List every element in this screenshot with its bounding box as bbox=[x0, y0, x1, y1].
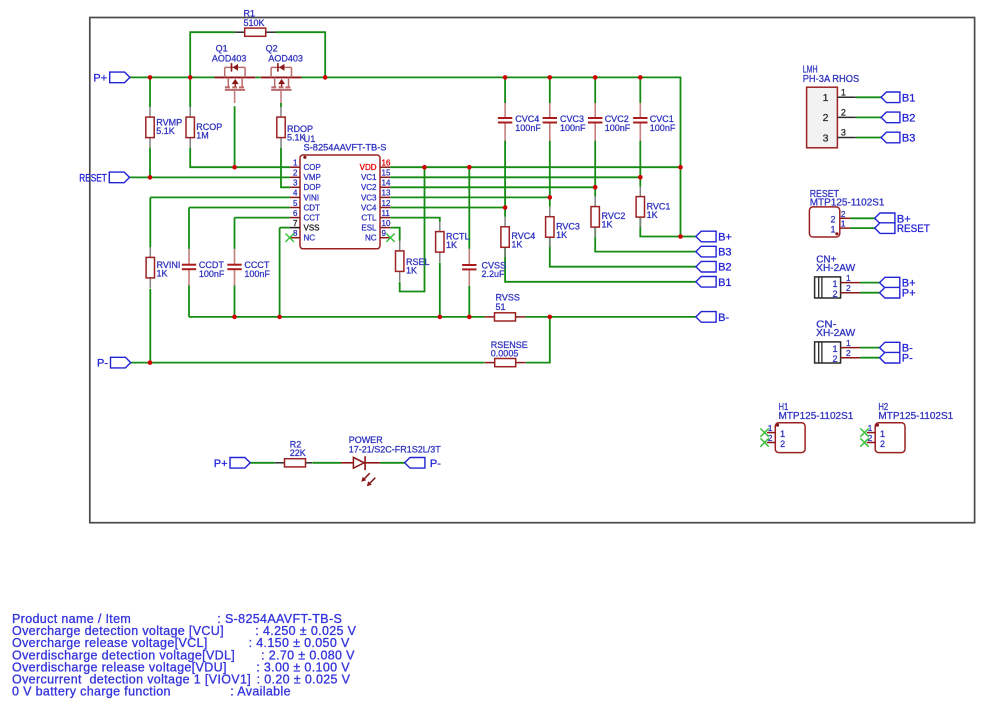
global label B- CN- bbox=[880, 342, 914, 354]
svg-text:2: 2 bbox=[823, 112, 829, 124]
wire R1 loop right bbox=[276, 32, 326, 77]
pin 16 VDD bbox=[360, 159, 391, 173]
svg-text:1: 1 bbox=[293, 159, 298, 168]
wire P+ rail right and drop to B+ row bbox=[301, 77, 680, 236]
junction P+/CVC3 bbox=[548, 75, 553, 80]
junction VC3/RVC3 bbox=[548, 195, 553, 200]
pin 7 VSS bbox=[290, 219, 320, 233]
junction VC1/RVC1 bbox=[638, 175, 643, 180]
svg-text:1K: 1K bbox=[446, 240, 457, 250]
svg-text:P+: P+ bbox=[93, 72, 107, 84]
svg-text:RESET: RESET bbox=[897, 223, 930, 235]
wire VSS rail left of RVSS bbox=[189, 316, 485, 318]
wire RESET to VMP pin bbox=[130, 176, 290, 178]
global label RESET input bbox=[79, 172, 129, 184]
svg-text:2: 2 bbox=[868, 433, 873, 443]
junction P+/R1 right bbox=[323, 75, 328, 80]
svg-text:VINI: VINI bbox=[304, 193, 320, 202]
svg-text:1: 1 bbox=[841, 219, 846, 229]
wire VC1 row bbox=[390, 176, 640, 178]
wire CCCT to VSS rail bbox=[234, 286, 236, 317]
svg-text:1: 1 bbox=[823, 92, 829, 104]
junction VDD/RSEL return bbox=[422, 165, 427, 170]
svg-text:MTP125-1102S1: MTP125-1102S1 bbox=[779, 411, 854, 422]
wire LMH pin1 to B1 bbox=[856, 96, 882, 98]
connector H1 MTP125-1102S1 bbox=[767, 402, 854, 453]
svg-text:13: 13 bbox=[382, 189, 391, 198]
svg-text:VC2: VC2 bbox=[361, 183, 377, 192]
svg-text:COP: COP bbox=[304, 163, 321, 172]
wire VC2 row bbox=[390, 186, 595, 188]
junction P+/CVC4 bbox=[503, 75, 508, 80]
wire CN+ pin2 to P+ bbox=[860, 292, 880, 294]
pin 3 DOP bbox=[290, 179, 321, 193]
wire CVSS to VSS rail bbox=[468, 286, 470, 317]
wire VC4 to RVC4 bbox=[504, 208, 506, 217]
svg-text:2: 2 bbox=[841, 108, 846, 118]
junction VDD/CVSS bbox=[467, 165, 472, 170]
wire VC2 to RVC2 bbox=[594, 187, 596, 196]
svg-text:100nF: 100nF bbox=[650, 123, 676, 133]
transistor Q2 bbox=[261, 44, 303, 103]
wire CCT drop to CCCT bbox=[234, 218, 236, 249]
wire LED to P- bbox=[380, 462, 405, 464]
wire CVC2 to VC2 row bbox=[594, 141, 596, 188]
svg-text:2: 2 bbox=[780, 439, 785, 449]
connector H2 MTP125-1102S1 bbox=[867, 402, 954, 453]
svg-text:AOD403: AOD403 bbox=[212, 54, 247, 64]
pin 5 CDT bbox=[290, 199, 320, 213]
capacitor CVC3 bbox=[543, 103, 586, 141]
svg-text:100nF: 100nF bbox=[515, 123, 541, 133]
svg-text:1K: 1K bbox=[647, 210, 658, 220]
svg-text:VC3: VC3 bbox=[361, 193, 377, 202]
wire CN- pin1 to B- bbox=[860, 347, 880, 349]
sheet border bbox=[90, 18, 975, 523]
svg-text:2: 2 bbox=[880, 439, 885, 449]
wire P+ rail left segment bbox=[130, 76, 215, 78]
global label B1 LMH bbox=[881, 92, 915, 104]
svg-text:P-: P- bbox=[902, 353, 913, 365]
wire RDOP to DOP pin bbox=[281, 148, 290, 188]
no-connect pin9 NC bbox=[386, 234, 394, 242]
pin 10 ESL bbox=[361, 219, 391, 233]
wire RCOP to COP row bbox=[190, 148, 290, 168]
pin 15 VC1 bbox=[361, 169, 391, 183]
svg-text:2: 2 bbox=[832, 354, 837, 364]
svg-text:510K: 510K bbox=[244, 18, 265, 28]
svg-text:RVSS: RVSS bbox=[496, 293, 520, 303]
wire P+ between Q1 Q2 bbox=[255, 76, 261, 78]
capacitor CVSS bbox=[462, 249, 506, 286]
wire VSS rail right of RVSS to B- bbox=[525, 316, 696, 318]
junction P+/CVC1 bbox=[638, 75, 643, 80]
svg-text:: Available: : Available bbox=[230, 685, 291, 699]
svg-text:1: 1 bbox=[868, 423, 873, 433]
wire P+ to CVC2 bbox=[594, 77, 596, 103]
wire P+ to RVMP bbox=[149, 77, 151, 107]
pin 2 VMP bbox=[290, 169, 321, 183]
svg-text:0.0005: 0.0005 bbox=[491, 349, 519, 359]
svg-text:0 V battery charge function: 0 V battery charge function bbox=[12, 685, 171, 699]
svg-text:B1: B1 bbox=[902, 92, 915, 104]
junction VSS rail/RSENSE bbox=[548, 315, 553, 320]
svg-text:16: 16 bbox=[382, 159, 391, 168]
junction P+/CVC2 bbox=[593, 75, 598, 80]
svg-text:2: 2 bbox=[846, 348, 851, 358]
wire RCTL to VSS rail bbox=[439, 263, 441, 317]
wire P+ to RCOP bbox=[189, 77, 191, 107]
svg-text:2: 2 bbox=[832, 289, 837, 299]
connector LMH PH-3A RHOS bbox=[803, 64, 860, 147]
svg-text:1: 1 bbox=[780, 429, 785, 439]
svg-text:CTL: CTL bbox=[361, 214, 377, 223]
wire CN- pin2 to P- bbox=[860, 357, 880, 359]
wire RVC3 to B2 row bbox=[550, 238, 696, 267]
wire VC4 row bbox=[390, 207, 505, 209]
connector CN- XH-2AW bbox=[815, 320, 861, 364]
specification text block bbox=[12, 612, 357, 699]
wire R2 to LED bbox=[312, 462, 341, 464]
global label RESET conn label bbox=[875, 223, 930, 235]
wire VINI drop to RVINI bbox=[149, 197, 151, 247]
wire CDT drop to CCDT bbox=[188, 208, 190, 249]
junction RESET/RVMP bbox=[148, 175, 153, 180]
svg-text:3: 3 bbox=[293, 179, 298, 188]
wire LMH pin3 to B3 bbox=[856, 137, 882, 139]
wire P+ to CVC1 bbox=[639, 77, 641, 103]
wire CDT row bbox=[189, 207, 290, 209]
svg-text:Q1: Q1 bbox=[216, 44, 228, 54]
wire R1 loop left bbox=[190, 32, 235, 77]
junction P- row/RVINI bbox=[148, 360, 153, 365]
capacitor CCDT bbox=[182, 249, 225, 286]
op-amp U1 S-8254AAVFT-TB-S bbox=[300, 134, 387, 249]
svg-text:VMP: VMP bbox=[304, 173, 321, 182]
svg-text:1K: 1K bbox=[406, 266, 417, 276]
wire CTL row to RCTL bbox=[390, 218, 440, 222]
svg-text:2: 2 bbox=[768, 433, 773, 443]
wire VC3 row bbox=[390, 196, 550, 198]
wire VDD row bbox=[390, 166, 680, 168]
pin 1 COP bbox=[290, 159, 321, 173]
global label B1 mid bbox=[696, 277, 732, 289]
wire VDD drop to CVSS bbox=[468, 167, 470, 249]
resistor RVMP bbox=[146, 107, 182, 148]
global label P+ CN+ bbox=[880, 287, 916, 299]
wire Q1 gate to COP row bbox=[234, 106, 236, 167]
resistor RVC3 bbox=[546, 207, 580, 248]
svg-text:14: 14 bbox=[382, 179, 391, 188]
wire P- row left of RSENSE bbox=[131, 362, 485, 364]
wire VC3 to RVC3 bbox=[549, 197, 551, 206]
pin 4 VINI bbox=[290, 189, 319, 203]
global label P- CN- bbox=[880, 352, 914, 364]
svg-text:DOP: DOP bbox=[304, 183, 321, 192]
junction VC4/RVC4 bbox=[503, 205, 508, 210]
junction VDD/P+ drop bbox=[678, 165, 683, 170]
svg-text:1: 1 bbox=[841, 88, 846, 98]
capacitor CVC2 bbox=[588, 103, 631, 141]
global label B+ RESET conn bbox=[875, 213, 911, 225]
resistor RVINI bbox=[146, 247, 180, 288]
capacitor CCCT bbox=[227, 249, 270, 286]
wire CVC1 to VC1 row bbox=[639, 141, 641, 178]
wire P+ to CVC4 bbox=[504, 77, 506, 103]
svg-text:PH-3A RHOS: PH-3A RHOS bbox=[803, 74, 860, 85]
pin 11 CTL bbox=[361, 209, 390, 223]
global label B3 mid bbox=[696, 246, 732, 258]
global label B+ mid bbox=[696, 231, 732, 243]
wire CN+ pin1 to B+ bbox=[860, 282, 880, 284]
wire CVC3 to VC3 row bbox=[549, 141, 551, 198]
svg-text:10: 10 bbox=[382, 219, 391, 228]
svg-text:4: 4 bbox=[293, 189, 298, 198]
svg-text:2.2uF: 2.2uF bbox=[482, 269, 506, 279]
pin 6 CCT bbox=[290, 209, 320, 223]
no-connect pin8 NC bbox=[286, 234, 294, 242]
wire VC1 to RVC1 bbox=[639, 177, 641, 186]
junction B+ row/P+ drop bbox=[678, 234, 683, 239]
svg-text:P-: P- bbox=[430, 458, 441, 470]
wire VSS pin stub wire bbox=[280, 227, 290, 229]
junction VSS rail/CVSS bbox=[467, 315, 472, 320]
svg-text:15: 15 bbox=[382, 169, 391, 178]
global label P- LED bbox=[405, 458, 442, 470]
wire ESL to RSEL bbox=[390, 228, 400, 241]
junction VSS rail/CCCT bbox=[232, 315, 237, 320]
pin 8 NC bbox=[290, 229, 315, 243]
resistor RVSS bbox=[485, 293, 526, 322]
svg-text:B+: B+ bbox=[718, 232, 732, 244]
global label B3 LMH bbox=[881, 132, 915, 144]
svg-text:2: 2 bbox=[841, 209, 846, 219]
wire CCDT to VSS rail bbox=[188, 286, 190, 317]
resistor RDOP bbox=[277, 107, 313, 148]
svg-text:P+: P+ bbox=[902, 288, 916, 300]
wire RSENSE to VSS rail bbox=[526, 317, 550, 363]
svg-text:9: 9 bbox=[382, 229, 387, 238]
svg-text:AOD403: AOD403 bbox=[268, 54, 303, 64]
svg-text:NC: NC bbox=[304, 234, 316, 243]
resistor R2 bbox=[275, 439, 313, 467]
svg-text:11: 11 bbox=[382, 209, 391, 218]
svg-text:1: 1 bbox=[846, 338, 851, 348]
resistor R1 bbox=[235, 9, 276, 37]
svg-text:1: 1 bbox=[832, 279, 837, 289]
wire RVC1 to B+ row bbox=[640, 217, 696, 236]
svg-text:VC1: VC1 bbox=[361, 173, 377, 182]
svg-text:7: 7 bbox=[293, 219, 298, 228]
resistor RVC2 bbox=[591, 197, 625, 238]
svg-text:5: 5 bbox=[293, 199, 298, 208]
pin 12 VC4 bbox=[361, 199, 391, 213]
svg-text:6: 6 bbox=[293, 209, 298, 218]
svg-text:CDT: CDT bbox=[304, 203, 321, 212]
svg-text:P+: P+ bbox=[214, 458, 228, 470]
svg-text:1K: 1K bbox=[556, 230, 567, 240]
svg-text:CCT: CCT bbox=[304, 214, 321, 223]
svg-text:B3: B3 bbox=[902, 133, 915, 145]
svg-text:5.1K: 5.1K bbox=[156, 126, 175, 136]
connector RESET MTP125-1102S1 bbox=[809, 189, 885, 237]
svg-text:Q2: Q2 bbox=[266, 44, 278, 54]
svg-text:51: 51 bbox=[496, 302, 506, 312]
svg-text:1K: 1K bbox=[511, 240, 522, 250]
resistor RVC4 bbox=[501, 217, 535, 257]
junction P+/RCOP/R1 bbox=[188, 75, 193, 80]
no-connect H1 pin1 NC bbox=[760, 428, 768, 436]
wire Q2 gate to RDOP bbox=[280, 103, 282, 107]
svg-text:17-21/S2C-FR1S2L/3T: 17-21/S2C-FR1S2L/3T bbox=[349, 445, 442, 455]
no-connect H2 pin1 NC bbox=[860, 428, 868, 436]
svg-text:2: 2 bbox=[293, 169, 298, 178]
wire RESET conn pin2 to B+ bbox=[850, 217, 874, 219]
global label B+ CN+ bbox=[880, 277, 916, 289]
svg-text:VDD: VDD bbox=[360, 163, 377, 172]
wire RVC2 to B3 row bbox=[595, 227, 696, 251]
global label B- mid bbox=[696, 312, 730, 324]
svg-text:2: 2 bbox=[830, 215, 835, 225]
wire RVMP to RESET row bbox=[149, 148, 151, 178]
no-connect H2 pin2 NC bbox=[860, 438, 868, 446]
junction VSS rail/RCTL bbox=[438, 315, 443, 320]
svg-text:2: 2 bbox=[846, 283, 851, 293]
resistor RVC1 bbox=[636, 187, 670, 228]
svg-text:22K: 22K bbox=[290, 448, 306, 458]
wire RVINI to P- row bbox=[149, 289, 151, 363]
resistor RCOP bbox=[186, 107, 222, 148]
wire RSEL return to VDD bbox=[400, 167, 425, 291]
junction P+/RVMP bbox=[148, 75, 153, 80]
svg-text:3: 3 bbox=[823, 132, 829, 144]
svg-text:S-8254AAVFT-TB-S: S-8254AAVFT-TB-S bbox=[304, 143, 387, 153]
svg-text:1M: 1M bbox=[196, 130, 209, 140]
wire RESET conn pin1 to RESET bbox=[850, 227, 874, 229]
global label B2 mid bbox=[696, 261, 732, 273]
svg-text:100nF: 100nF bbox=[605, 123, 631, 133]
pin 13 VC3 bbox=[361, 189, 391, 203]
junction VC2/RVC2 bbox=[593, 185, 598, 190]
svg-text:B3: B3 bbox=[718, 247, 731, 259]
global label P+ LED bbox=[214, 458, 250, 470]
no-connect H1 pin2 NC bbox=[760, 438, 768, 446]
svg-text:1K: 1K bbox=[602, 220, 613, 230]
global label P- input bbox=[97, 357, 131, 369]
svg-text:1: 1 bbox=[846, 273, 851, 283]
svg-text:1: 1 bbox=[768, 423, 773, 433]
global label B2 LMH bbox=[881, 112, 915, 124]
svg-text:VSS: VSS bbox=[304, 224, 320, 233]
connector CN+ XH-2AW bbox=[815, 255, 861, 299]
pin 9 NC bbox=[365, 229, 390, 243]
capacitor CVC4 bbox=[498, 103, 541, 141]
resistor RSENSE bbox=[485, 340, 528, 367]
wire CVC4 to VC4 row bbox=[504, 141, 506, 208]
junction VSS rail/VSS pin bbox=[277, 315, 282, 320]
svg-text:RESET: RESET bbox=[79, 172, 107, 184]
svg-text:NC: NC bbox=[365, 234, 377, 243]
pin 14 VC2 bbox=[361, 179, 391, 193]
svg-text:MTP125-1102S1: MTP125-1102S1 bbox=[878, 411, 953, 422]
svg-text:100nF: 100nF bbox=[199, 269, 225, 279]
LED POWER bbox=[341, 435, 441, 486]
wire LMH pin2 to B2 bbox=[856, 116, 882, 118]
svg-text:B1: B1 bbox=[718, 277, 731, 289]
svg-text:1: 1 bbox=[832, 344, 837, 354]
wire RVC4 to B1 row bbox=[505, 248, 696, 282]
svg-text:12: 12 bbox=[382, 199, 391, 208]
wire VINI row bbox=[150, 196, 290, 198]
transistor Q1 bbox=[212, 44, 255, 103]
svg-text:VC4: VC4 bbox=[361, 203, 377, 212]
global label P+ input bbox=[93, 72, 129, 84]
svg-text:100nF: 100nF bbox=[560, 123, 586, 133]
wire VSS drop to rail bbox=[279, 228, 281, 317]
resistor RCTL bbox=[436, 222, 470, 263]
svg-text:1: 1 bbox=[880, 429, 885, 439]
junction COP/Q1 gate bbox=[232, 165, 237, 170]
svg-text:P-: P- bbox=[97, 358, 108, 370]
svg-text:100nF: 100nF bbox=[244, 269, 270, 279]
wire CCT row bbox=[235, 217, 290, 219]
svg-text:3: 3 bbox=[841, 128, 846, 138]
svg-text:1K: 1K bbox=[157, 269, 168, 279]
svg-text:B2: B2 bbox=[902, 112, 915, 124]
svg-text:B2: B2 bbox=[718, 262, 731, 274]
wire P+ to R2 bbox=[250, 462, 274, 464]
svg-text:ESL: ESL bbox=[361, 224, 377, 233]
svg-text:B-: B- bbox=[718, 312, 729, 324]
capacitor CVC1 bbox=[633, 103, 676, 141]
resistor RSEL bbox=[396, 241, 430, 282]
wire P+ to CVC3 bbox=[549, 77, 551, 103]
svg-text:1: 1 bbox=[830, 224, 835, 234]
